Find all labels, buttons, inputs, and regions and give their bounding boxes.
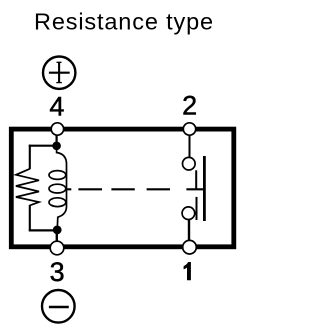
wire left branch vertical upper	[29, 145, 31, 170]
minus polarity symbol	[42, 290, 75, 323]
pin number label 1	[184, 262, 191, 280]
terminal 3	[50, 241, 64, 255]
moving contact blade bar	[203, 156, 206, 221]
mechanical linkage dashed line	[67, 188, 203, 190]
wire lower junction to terminal3	[56, 230, 58, 241]
wire terminal2 to upper contact	[189, 135, 191, 158]
coil L (relay coil)	[49, 146, 67, 230]
junction dot lower	[53, 226, 62, 235]
plus polarity symbol	[43, 56, 75, 88]
terminal 4	[51, 123, 63, 135]
svg-text:3: 3	[50, 257, 65, 287]
resistor R	[16, 169, 39, 206]
svg-text:Resistance type: Resistance type	[34, 8, 214, 34]
wire lower contact to terminal1	[188, 220, 190, 242]
wire left branch bottom to junction	[29, 229, 57, 231]
terminal 2	[183, 123, 195, 135]
junction dot upper	[52, 142, 61, 151]
fixed contact lower	[182, 207, 195, 220]
contact stub upper	[195, 170, 197, 189]
wire junction to left branch top	[29, 145, 57, 147]
contact stub lower	[196, 197, 198, 220]
fixed contact upper	[183, 157, 196, 170]
terminal 1	[183, 240, 197, 254]
svg-text:2: 2	[182, 90, 197, 120]
wire left branch vertical lower	[29, 205, 31, 231]
relay enclosure box	[11, 129, 234, 247]
svg-text:4: 4	[49, 92, 64, 122]
wire terminal4 to junction	[55, 135, 57, 144]
